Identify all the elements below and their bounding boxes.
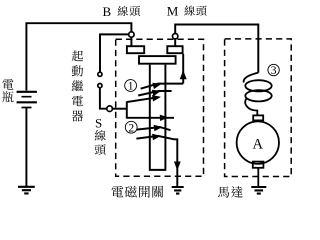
svg-text:M: M [167, 4, 179, 19]
svg-text:3: 3 [271, 65, 277, 77]
svg-text:B: B [103, 4, 112, 19]
svg-text:S: S [95, 116, 102, 131]
svg-text:1: 1 [128, 81, 134, 93]
svg-text:2: 2 [128, 122, 134, 134]
svg-text:A: A [253, 136, 264, 152]
